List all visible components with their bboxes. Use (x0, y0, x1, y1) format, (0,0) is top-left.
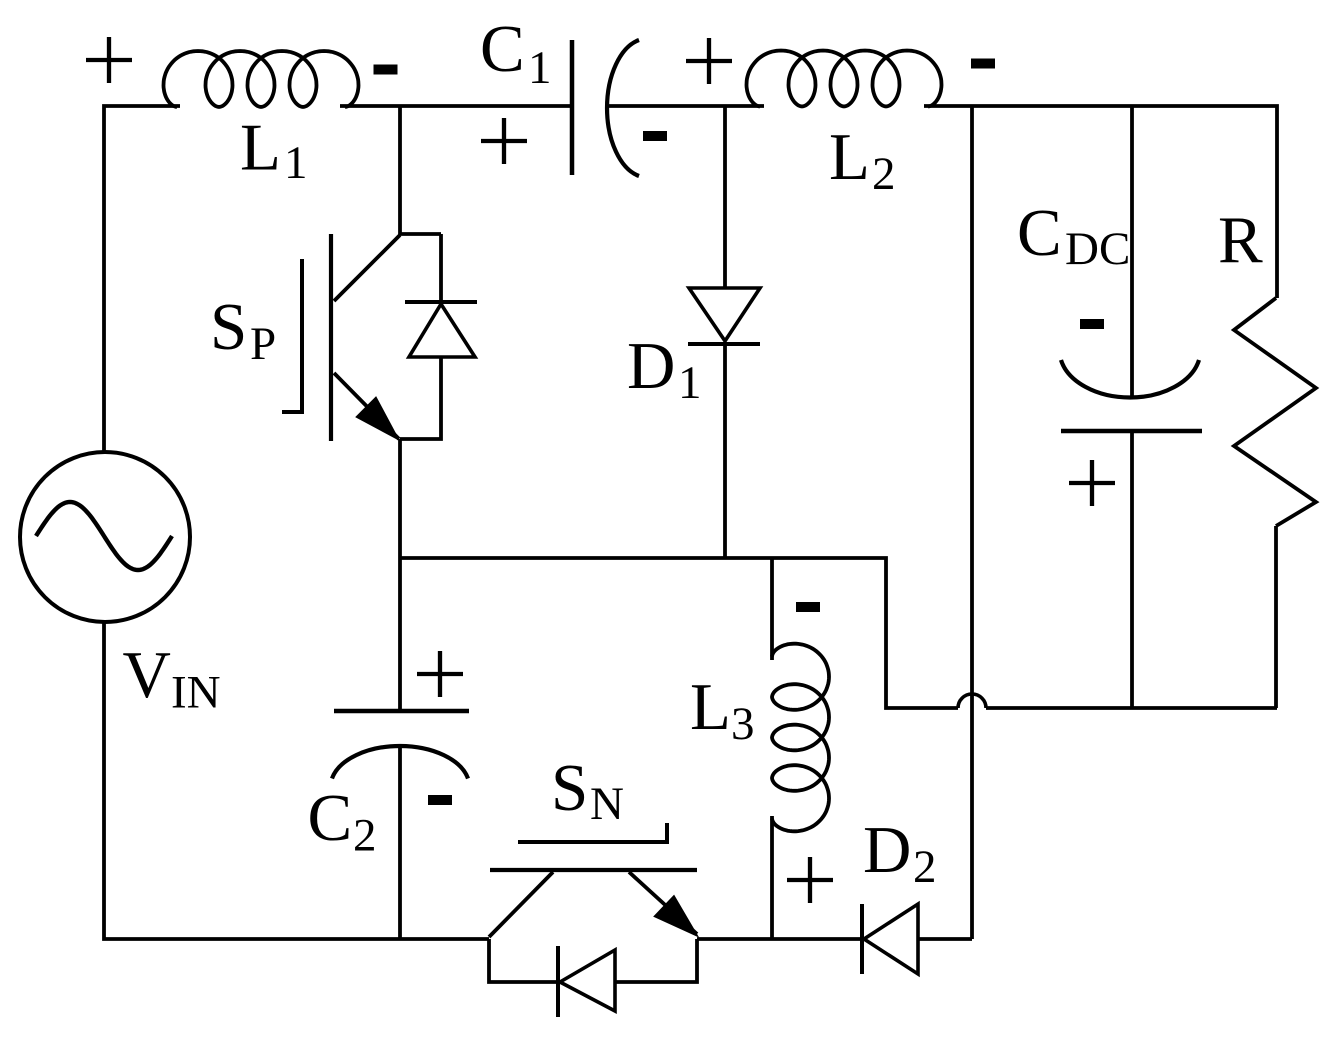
label D2 (863, 813, 937, 893)
transistor S_P body bar (329, 234, 333, 441)
svg-text:2: 2 (872, 148, 896, 200)
inductor L1 (164, 51, 359, 107)
svg-text:2: 2 (353, 810, 377, 862)
transistor S_N emitter (629, 872, 697, 934)
label C1 (480, 12, 552, 94)
svg-text:V: V (123, 638, 171, 712)
label R (1218, 203, 1263, 277)
wire L2 to top-right corner (924, 106, 1277, 298)
label C_DC (1017, 196, 1130, 275)
diode of S_P cathode bar (405, 300, 477, 304)
label S_N (551, 751, 624, 830)
wire L1 to C1 (340, 104, 572, 108)
svg-text:3: 3 (731, 698, 755, 750)
svg-text:1: 1 (528, 42, 552, 94)
svg-text:L: L (240, 111, 281, 185)
capacitor C2 curved plate (332, 746, 468, 779)
diode of S_N loop left (489, 939, 556, 982)
wire top rail to D1 (723, 106, 727, 288)
plus sign C_DC (1069, 460, 1115, 506)
plus sign L3 (787, 857, 833, 903)
source V_IN (20, 452, 190, 622)
wire S_P diode branch (400, 234, 441, 439)
label L2 (829, 120, 896, 200)
svg-text:S: S (210, 290, 247, 364)
plus sign C1 left (481, 118, 527, 164)
wire left-bottom (104, 622, 489, 939)
diode D1 (688, 288, 760, 344)
plus sign C2 (417, 651, 463, 697)
wire mid-right rail (986, 706, 1277, 710)
sine wave of V_IN (36, 502, 172, 570)
wire mid rail to L3 (770, 558, 774, 660)
wire D2 to output node (918, 937, 972, 941)
svg-text:IN: IN (171, 667, 221, 719)
svg-text:1: 1 (284, 137, 308, 189)
svg-text:R: R (1218, 203, 1263, 277)
wire hop over output line (958, 694, 986, 708)
capacitor C1 curved plate (607, 40, 639, 176)
transistor S_N emitter arrow (654, 896, 698, 937)
transistor S_N gate (518, 823, 667, 842)
transistor S_N body bar (490, 868, 697, 872)
svg-text:P: P (250, 318, 276, 370)
wire top-left (104, 106, 180, 452)
minus sign L3 (796, 602, 820, 612)
minus sign C_DC (1080, 319, 1104, 329)
diode of S_P (409, 304, 475, 357)
diode of S_N loop right (615, 939, 697, 982)
wire C2 to bottom rail (398, 746, 402, 939)
capacitor C_DC curved plate (1061, 360, 1199, 398)
wire mid rail (400, 558, 958, 708)
wire top rail down at output node (970, 106, 974, 939)
transistor S_P top jog (400, 232, 441, 236)
wire R to bottom rail (1274, 526, 1278, 708)
label V_IN (123, 638, 221, 719)
capacitor C1 flat plate (570, 40, 575, 175)
label L3 (690, 670, 755, 750)
inductor L2 (747, 51, 942, 107)
wire top rail to C_DC (1130, 106, 1134, 397)
svg-text:C: C (308, 781, 353, 855)
inductor L3 (772, 644, 829, 832)
diode of S_N (560, 950, 615, 1011)
capacitor C2 flat plate (334, 709, 469, 714)
plus sign at V_IN top-left (86, 37, 132, 83)
diode of S_N cathode bar (556, 946, 560, 1017)
plus sign before L2 (686, 38, 732, 84)
minus sign after L1 (374, 65, 398, 75)
svg-text:D: D (863, 813, 911, 887)
transistor S_P gate (282, 259, 302, 412)
svg-text:N: N (590, 778, 624, 830)
svg-text:D: D (627, 329, 675, 403)
transistor S_P emitter (334, 373, 399, 439)
label S_P (210, 290, 276, 370)
svg-text:C: C (480, 12, 525, 86)
transistor S_P collector (334, 235, 400, 301)
svg-text:C: C (1017, 196, 1062, 270)
capacitor C_DC flat plate (1061, 429, 1202, 434)
transistor S_P emitter arrow (356, 397, 399, 440)
label L1 (240, 111, 308, 190)
svg-text:1: 1 (678, 357, 702, 409)
wire L3 to bottom rail (770, 816, 774, 939)
diode D2 (864, 904, 918, 974)
minus sign C1 right (643, 131, 667, 141)
svg-text:2: 2 (913, 841, 937, 893)
label C2 (308, 781, 377, 862)
wire S_P to mid rail (398, 439, 402, 558)
minus sign after L2 (971, 59, 995, 69)
wire top rail to S_P (398, 106, 402, 235)
svg-text:L: L (829, 120, 870, 194)
diode D2 cathode bar (860, 904, 864, 974)
svg-text:L: L (690, 670, 731, 744)
wire bottom rail to D2 (697, 937, 862, 941)
minus sign C2 (428, 795, 452, 805)
wire C_DC to bottom rail (1130, 431, 1134, 708)
svg-text:S: S (551, 751, 588, 825)
transistor S_N collector (489, 872, 553, 937)
wire D1 to mid rail (723, 344, 727, 558)
label D1 (627, 329, 702, 409)
resistor R (1234, 298, 1316, 526)
wire mid rail to C2 (398, 558, 402, 711)
svg-text:DC: DC (1065, 223, 1130, 275)
wire C1 to L2 (607, 104, 764, 108)
